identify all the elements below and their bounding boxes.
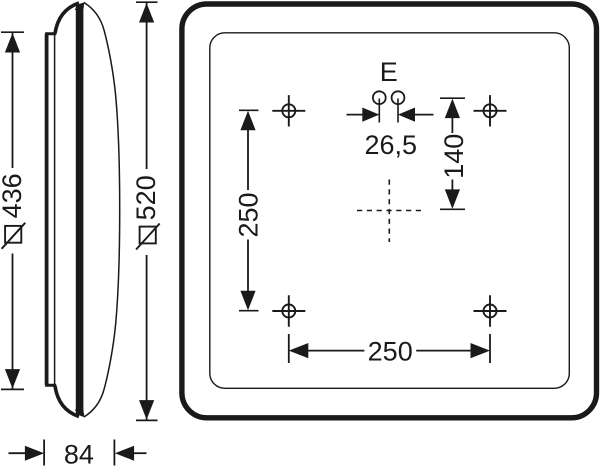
svg-text:520: 520 bbox=[131, 175, 161, 220]
svg-text:26,5: 26,5 bbox=[365, 130, 418, 160]
svg-text:250: 250 bbox=[368, 337, 413, 367]
svg-text:140: 140 bbox=[439, 134, 469, 179]
svg-text:E: E bbox=[380, 57, 398, 87]
svg-text:436: 436 bbox=[0, 173, 27, 218]
svg-text:84: 84 bbox=[64, 439, 94, 466]
svg-text:250: 250 bbox=[234, 192, 264, 237]
